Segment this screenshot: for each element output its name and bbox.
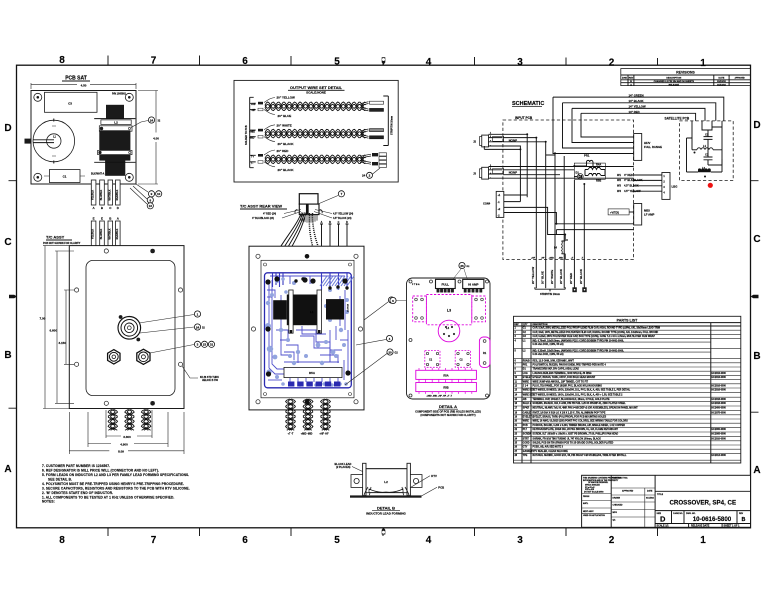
svg-text:R5A: R5A xyxy=(443,374,448,378)
svg-text:SCREWS, #6x32x5, 316, 8 JAW, P: SCREWS, #6x32x5, 316, 8 JAW, P/N PB PHIL… xyxy=(533,402,627,405)
twisted pair HF wires xyxy=(265,102,366,108)
svg-text:20: 20 xyxy=(388,350,392,354)
right terminals pair1 xyxy=(361,102,369,111)
svg-text:NATURAL SHRINK, GOOD ETA, 58,: NATURAL SHRINK, GOOD ETA, 58, P/N 40HC/7… xyxy=(533,454,627,457)
svg-text:CTY: CTY xyxy=(523,447,528,449)
svg-text:A: A xyxy=(4,464,11,475)
svg-text:10-0616: 10-0616 xyxy=(348,303,350,312)
resistor R5A xyxy=(284,367,342,377)
svg-text:CONTRACT NO.: CONTRACT NO. xyxy=(613,477,629,480)
svg-text:POLYSWITCH, RUE250, P/N RAYCHE: POLYSWITCH, RUE250, P/N RAYCHEM, PRE-TRI… xyxy=(533,364,607,367)
inductor L3 rear xyxy=(326,299,344,319)
svg-text:SHEET 1 OF 1: SHEET 1 OF 1 xyxy=(724,525,741,528)
svg-text:13: 13 xyxy=(149,204,153,208)
svg-text:CAP, 10uF, 100V, METALLIZED PO: CAP, 10uF, 100V, METALLIZED POLYESTER FI… xyxy=(533,331,659,334)
capacitor C1 sat xyxy=(704,150,723,165)
wire 14 BLACK xyxy=(563,103,716,148)
right straight wires xyxy=(320,224,349,273)
corner screw holes xyxy=(34,93,134,181)
bottom solder terminals xyxy=(288,382,340,387)
svg-text:STRIP/TIN 10mm: STRIP/TIN 10mm xyxy=(391,116,394,135)
svg-text:W3: W3 xyxy=(617,184,621,188)
inductor L1 sat xyxy=(692,149,697,151)
svg-text:4: 4 xyxy=(426,57,432,68)
svg-text:RES, 12.5 OHM, 10W, CERAMIC, W: RES, 12.5 OHM, 10W, CERAMIC, WWT xyxy=(533,359,575,362)
svg-text:4: 4 xyxy=(426,535,432,546)
svg-text:4.00: 4.00 xyxy=(153,137,159,141)
svg-text:P/N 1005801: P/N 1005801 xyxy=(112,93,127,96)
svg-text:HC2075-0000: HC2075-0000 xyxy=(712,412,727,414)
svg-text:HC2016-0000: HC2016-0000 xyxy=(712,373,727,375)
svg-text:CON4: CON4 xyxy=(483,202,491,206)
header wires xyxy=(504,207,634,234)
inductor L1 (toroid) xyxy=(33,120,75,162)
svg-text:DRAWN: DRAWN xyxy=(613,497,621,500)
left dimensions xyxy=(43,246,74,409)
braids placeholder xyxy=(265,102,366,164)
svg-text:PCBX, AB, A/P, SEE NOTE 3: PCBX, AB, A/P, SEE NOTE 3 xyxy=(533,446,564,449)
svg-text:01/15/02: 01/15/02 xyxy=(717,81,726,83)
red marker xyxy=(708,183,713,188)
svg-text:T/C ASSY: T/C ASSY xyxy=(46,235,65,240)
svg-text:PR1: PR1 xyxy=(523,365,528,367)
svg-text:C1: C1 xyxy=(705,153,709,157)
svg-text:F T B A: F T B A xyxy=(412,283,420,286)
hex nuts xyxy=(108,349,150,364)
svg-text:31: 31 xyxy=(210,343,214,347)
svg-text:GASKET: GASKET xyxy=(523,450,533,453)
svg-text:W2: W2 xyxy=(617,178,621,182)
hatched copper area xyxy=(320,276,354,286)
svg-text:SCALE:NONE: SCALE:NONE xyxy=(306,91,326,95)
svg-text:0.40 ohm DCR, ±10%, 55 uH): 0.40 ohm DCR, ±10%, 55 uH) xyxy=(533,343,564,346)
bobbin flanges xyxy=(363,463,366,495)
svg-text:SHLD 2: SHLD 2 xyxy=(523,403,532,405)
svg-text:CAGE NO.: CAGE NO. xyxy=(673,512,683,515)
svg-text:WHT/BLK: WHT/BLK xyxy=(108,228,111,239)
mounting holes xyxy=(409,280,489,397)
svg-text:W1: W1 xyxy=(617,173,621,177)
balloons 26 R2 xyxy=(446,269,470,288)
pin wires group 2 xyxy=(93,217,120,221)
svg-text:CORD: CORD xyxy=(523,443,530,445)
zone ticks sides xyxy=(9,181,759,413)
svg-text:3: 3 xyxy=(517,535,523,546)
svg-text:5: 5 xyxy=(334,57,340,68)
svg-text:LUG: LUG xyxy=(523,373,528,375)
svg-text:PCB: PCB xyxy=(438,485,444,489)
svg-text:R5A/B: R5A/B xyxy=(523,359,530,362)
wire conn1 loop xyxy=(503,134,527,201)
diode D1 xyxy=(577,174,583,180)
svg-text:D: D xyxy=(660,515,666,524)
svg-text:+MID -MID +HF -HF +T -T: +MID -MID +HF -HF +T -T xyxy=(426,396,452,398)
mounting tabs xyxy=(351,475,363,488)
right connector pair3 xyxy=(360,154,371,164)
svg-text:SET WIRES, BONDED, 16GA, 220x3: SET WIRES, BONDED, 16GA, 220x300, 1UL, P… xyxy=(533,389,631,392)
svg-text:FULL RANGE: FULL RANGE xyxy=(644,145,662,149)
svg-text:J 1-4: J 1-4 xyxy=(523,385,529,388)
svg-text:L2: L2 xyxy=(114,121,118,125)
svg-text:EYELET: EYELET xyxy=(523,377,533,379)
blue PCB xyxy=(265,273,355,388)
rear twisted wire pair MID xyxy=(303,399,311,430)
svg-text:FINISH: FINISH xyxy=(583,496,590,498)
svg-text:PLT: PLT xyxy=(523,429,528,431)
svg-text:C3: C3 xyxy=(705,132,709,136)
svg-text:REVISIONS: REVISIONS xyxy=(676,71,695,75)
solder pads xyxy=(265,277,349,387)
svg-text:HC2400-0000: HC2400-0000 xyxy=(712,407,727,410)
svg-text:C: C xyxy=(338,221,340,224)
svg-text:SPKR: SPKR xyxy=(523,408,530,410)
svg-text:20" WHITE: 20" WHITE xyxy=(277,123,292,127)
svg-text:R5B: R5B xyxy=(443,386,448,390)
svg-text:+MID: +MID xyxy=(549,257,555,259)
svg-text:PCB NOT SHOWN FOR CLARITY: PCB NOT SHOWN FOR CLARITY xyxy=(43,242,81,245)
svg-text:PCB: PCB xyxy=(523,425,528,427)
svg-text:YEL/BLK: YEL/BLK xyxy=(92,190,95,201)
svg-text:4.5" YELLOW (24): 4.5" YELLOW (24) xyxy=(333,213,353,216)
wire pins below PCB SAT xyxy=(91,180,161,246)
front panel twisted wire T xyxy=(108,410,115,431)
svg-text:(2 PLACES): (2 PLACES) xyxy=(336,465,351,469)
svg-text:PARTS LIST: PARTS LIST xyxy=(617,319,639,323)
svg-text:C: C xyxy=(4,237,11,248)
board outline xyxy=(31,91,136,185)
svg-text:PR1: PR1 xyxy=(584,154,590,158)
svg-text:SEE DETAIL B.: SEE DETAIL B. xyxy=(48,478,72,482)
svg-text:LF AMP: LF AMP xyxy=(644,213,654,217)
svg-text:TPE: TPE xyxy=(523,455,528,457)
svg-text:HC2010-0000: HC2010-0000 xyxy=(712,438,727,440)
svg-text:4" BLU/BLACK (24): 4" BLU/BLACK (24) xyxy=(252,217,274,220)
svg-text:WHT/BLK: WHT/BLK xyxy=(108,189,111,200)
svg-text:-MID: -MID xyxy=(249,137,255,140)
svg-text:INPUT PCB: INPUT PCB xyxy=(515,116,533,120)
svg-text:T/C ASSY REAR VIEW: T/C ASSY REAR VIEW xyxy=(240,204,282,209)
svg-text:T+: T+ xyxy=(251,156,255,159)
svg-text:C1: C1 xyxy=(63,175,67,179)
svg-text:14" BLACK: 14" BLACK xyxy=(629,99,644,103)
svg-text:HC2014-0000: HC2014-0000 xyxy=(712,454,727,457)
rear twisted wire pair T xyxy=(286,399,294,430)
svg-text:REV: REV xyxy=(739,513,744,515)
junction dots xyxy=(519,133,585,235)
wire W2 xyxy=(634,179,662,181)
svg-text:+HF: +HF xyxy=(251,103,256,106)
svg-text:7. CUSTOMER PART NUMBER IS 12: 7. CUSTOMER PART NUMBER IS 1234567. xyxy=(42,464,110,468)
satellite wires xyxy=(692,121,722,138)
svg-text:B: B xyxy=(753,351,760,362)
svg-text:7.00: 7.00 xyxy=(40,317,46,321)
resistor R4A xyxy=(588,168,601,170)
svg-text:20" YELLOW: 20" YELLOW xyxy=(277,96,296,100)
svg-text:APPROVED: APPROVED xyxy=(622,489,634,492)
svg-text:C3: C3 xyxy=(68,102,72,106)
svg-text:RELEASE: RELEASE xyxy=(669,83,680,86)
svg-text:5. FORM LEADS ON INDUCTOR L2: 5. FORM LEADS ON INDUCTOR L2 AND L3 PER … xyxy=(42,473,189,477)
svg-text:ZONE: ZONE xyxy=(622,77,628,79)
svg-text:1. ALL COMPONENTS TO BE TESTE: 1. ALL COMPONENTS TO BE TESTED AT 1 KHz … xyxy=(42,495,174,499)
capacitor C1 xyxy=(49,170,80,183)
wire 14 GREEN xyxy=(553,97,724,153)
pcb hatched xyxy=(350,495,422,497)
wire W3 xyxy=(634,185,662,187)
connector HI AMP xyxy=(463,279,484,288)
mounting holes xyxy=(75,249,183,406)
svg-text:HC2016-0000: HC2016-0000 xyxy=(712,377,727,379)
note 8X holes xyxy=(182,366,198,378)
svg-text:+MID: +MID xyxy=(249,130,255,133)
svg-text:8.09: 8.09 xyxy=(118,450,124,454)
speakon connector xyxy=(118,317,141,340)
dimension 4.00 xyxy=(138,91,158,185)
inductor L2 sat xyxy=(697,171,698,173)
leader balloons right xyxy=(139,315,194,354)
svg-text:HC2016-0000: HC2016-0000 xyxy=(712,390,727,392)
svg-text:B: B xyxy=(329,221,331,224)
svg-text:WIRE, 16 AWG, UL/1015 (105) PO: WIRE, 16 AWG, UL/1015 (105) POINT PVC CO… xyxy=(533,420,629,423)
general notes xyxy=(42,464,190,504)
centre marks xyxy=(9,295,17,299)
left bracket xyxy=(250,97,256,167)
svg-text:4. POLYSWITCH MUST BE PRE-TRI: 4. POLYSWITCH MUST BE PRE-TRIPPED USING … xyxy=(42,482,184,486)
svg-text:4.50: 4.50 xyxy=(81,84,87,88)
svg-text:D1: D1 xyxy=(576,171,580,175)
svg-text:PLUG, 7/16 PANEL, FOR 18/16P,: PLUG, 7/16 PANEL, FOR 18/16P, PVC, BLACK… xyxy=(533,385,603,388)
block MID LF AMP xyxy=(634,204,642,226)
bottom twisted wires xyxy=(108,410,151,431)
svg-text:4.5" YELLOW: 4.5" YELLOW xyxy=(624,189,641,193)
wire W4 xyxy=(634,190,662,192)
svg-text:R4A: R4A xyxy=(596,163,601,167)
svg-text:4.5" BLACK (24): 4.5" BLACK (24) xyxy=(333,217,352,220)
svg-text:NEXT ASSY: NEXT ASSY xyxy=(583,510,594,513)
svg-text:TERMINAL CUP, 184x217, BLACK/G: TERMINAL CUP, 184x217, BLACK/GOLD, 28mm,… xyxy=(533,398,611,401)
parts list table xyxy=(514,316,741,463)
title block xyxy=(582,475,751,527)
dimension 4.50 xyxy=(31,83,136,89)
svg-text:DWG. NO.: DWG. NO. xyxy=(686,513,696,515)
svg-text:3: 3 xyxy=(517,57,523,68)
svg-text:HC2018-0000: HC2018-0000 xyxy=(712,399,727,401)
svg-text:10-0616-5800: 10-0616-5800 xyxy=(693,516,732,523)
capacitor C3 xyxy=(45,92,98,112)
svg-text:DATE: DATE xyxy=(719,76,725,79)
bottom braids xyxy=(286,399,331,430)
svg-text:2: 2 xyxy=(609,535,615,546)
connector J3 xyxy=(482,167,489,179)
svg-text:14" GREEN: 14" GREEN xyxy=(629,93,644,97)
front panel twisted wire MID xyxy=(125,410,132,431)
svg-text:4" RED (24): 4" RED (24) xyxy=(263,213,276,216)
svg-text:24: 24 xyxy=(362,174,366,178)
svg-text:T-: T- xyxy=(251,162,253,165)
svg-text:CAP, 0.22uF, 250V POLYESTER FI: CAP, 0.22uF, 250V POLYESTER FILM CAP, BO… xyxy=(533,335,656,338)
inductor L4 (toroid) xyxy=(438,320,460,342)
svg-text:20" WHITE: 20" WHITE xyxy=(550,270,554,284)
wire W1 xyxy=(634,174,662,176)
terminal block J4 xyxy=(662,173,670,200)
balloon 24 (L2 bar) xyxy=(131,121,148,128)
svg-text:L3: L3 xyxy=(447,309,451,313)
svg-text:SCREW, SLT .093x50 x .09x50 x: SCREW, SLT .093x50 x .09x50 x .62ST PB B… xyxy=(533,433,619,436)
svg-text:A: A xyxy=(321,221,323,224)
svg-text:20" RED: 20" RED xyxy=(569,273,573,284)
svg-text:STRT: STRT xyxy=(523,438,530,440)
svg-text:RED/BLK: RED/BLK xyxy=(116,189,119,200)
svg-text:KEYBOARD/PLATE, 184x8 DIA, 28: KEYBOARD/PLATE, 184x8 DIA, 28 PKG BROWN,… xyxy=(533,428,619,431)
svg-text:C: C xyxy=(753,234,760,245)
strip/tin bracket xyxy=(535,287,565,291)
svg-text:E: E xyxy=(101,217,103,221)
svg-text:D: D xyxy=(4,123,11,134)
right bracket xyxy=(383,96,388,146)
svg-text:OF MACKIE DESIGNS.: OF MACKIE DESIGNS. xyxy=(588,481,609,484)
balloon 6 xyxy=(396,300,407,302)
svg-text:6. REF DESIGNATOR IS MILL PRI: 6. REF DESIGNATOR IS MILL PRICE WILL (CO… xyxy=(42,469,159,473)
svg-text:R5B: R5B xyxy=(596,179,601,183)
pcb screws xyxy=(265,276,350,376)
zone ticks top xyxy=(108,56,658,66)
svg-text:RIVET, 1/8 DIA X 5/16 LG X 1/8: RIVET, 1/8 DIA X 5/16 LG X 1/8 X 1.25 X … xyxy=(533,411,606,414)
svg-text:LBG: LBG xyxy=(672,185,678,189)
svg-text:24: 24 xyxy=(150,118,154,122)
svg-text:8: 8 xyxy=(59,55,65,66)
svg-text:LUG/SOLDERLESS TERMINAL, NON S: LUG/SOLDERLESS TERMINAL, NON SPLICE, #6 … xyxy=(533,372,592,375)
svg-text:2: 2 xyxy=(609,58,615,69)
svg-text:POROUS, BOARD, 0.200 x 0.200,: POROUS, BOARD, 0.200 x 0.200, TINNED BRA… xyxy=(533,424,626,427)
svg-text:R5A: R5A xyxy=(309,371,316,375)
svg-text:CROSSOVER, SP4, CE: CROSSOVER, SP4, CE xyxy=(669,500,736,507)
svg-text:MFG: MFG xyxy=(613,512,618,514)
revisions table xyxy=(621,69,751,86)
svg-text:01/15/02: 01/15/02 xyxy=(646,498,655,500)
svg-text:3.150: 3.150 xyxy=(59,341,67,345)
connector block top xyxy=(299,194,318,204)
svg-text:RELEASE DATE: RELEASE DATE xyxy=(691,525,710,528)
svg-text:INDUCTOR LEAD FORMING: INDUCTOR LEAD FORMING xyxy=(366,512,406,516)
svg-text:APPROVED: APPROVED xyxy=(735,76,746,79)
svg-text:3. SECURE CAPACITORS, RESISTO: 3. SECURE CAPACITORS, RESISTORS AND RESI… xyxy=(42,486,190,490)
svg-text:SOLDER TO PCB: SOLDER TO PCB xyxy=(245,125,248,145)
svg-text:7: 7 xyxy=(151,535,157,546)
svg-text:A: A xyxy=(753,465,760,476)
rear panel xyxy=(249,246,364,410)
svg-text:RTV: RTV xyxy=(431,474,437,478)
formed leads xyxy=(364,487,409,495)
svg-text:7: 7 xyxy=(151,56,157,67)
svg-text:REV: REV xyxy=(629,77,634,79)
svg-text:20" BLACK: 20" BLACK xyxy=(278,168,295,172)
svg-text:+V/T(X): +V/T(X) xyxy=(610,210,619,214)
svg-text:STRIP/TIN 10mm: STRIP/TIN 10mm xyxy=(540,293,561,296)
svg-text:D: D xyxy=(753,120,760,131)
right terminals pair2 xyxy=(361,129,369,138)
resistor R5A outline xyxy=(416,370,477,391)
svg-text:23: 23 xyxy=(203,343,207,347)
svg-text:SHRINK, FR-3/16 TINS TUBING UL: SHRINK, FR-3/16 TINS TUBING UL 747 NYLON… xyxy=(533,437,602,440)
svg-text:2. 'M' DENOTES START END OF I: 2. 'M' DENOTES START END OF INDUCTOR. xyxy=(42,491,113,495)
svg-text:WIRE JUMP #18 AWG/UL, 18P TINN: WIRE JUMP #18 AWG/UL, 18P TINNED, CUT TO… xyxy=(533,380,589,383)
svg-text:RTV SEALER, CLEAR SILICONE: RTV SEALER, CLEAR SILICONE xyxy=(533,450,569,453)
svg-text:B: B xyxy=(742,517,746,523)
svg-text:HC2060-0000: HC2060-0000 xyxy=(712,429,727,431)
svg-text:R1: R1 xyxy=(483,351,487,355)
svg-text:TRANSZORB 5KP, 30V CAPS, AXIAL: TRANSZORB 5KP, 30V CAPS, AXIAL LEAD xyxy=(533,368,580,371)
svg-text:DESCRIPTION: DESCRIPTION xyxy=(666,77,681,79)
svg-text:20" BLACK: 20" BLACK xyxy=(278,142,295,146)
svg-text:L2: L2 xyxy=(384,480,388,484)
balloons right xyxy=(345,302,388,385)
svg-text:FULL: FULL xyxy=(441,283,449,287)
svg-text:YEL/BLK: YEL/BLK xyxy=(92,229,95,240)
resistor R5B xyxy=(588,174,601,176)
front panel twisted wire HF xyxy=(141,410,148,431)
svg-text:WIRE: WIRE xyxy=(523,381,529,383)
bobbin flange bars xyxy=(289,290,322,333)
svg-text:DETAIL A: DETAIL A xyxy=(439,404,457,409)
svg-text:RED/BLK: RED/BLK xyxy=(116,228,119,239)
svg-text:DESCRIPTION: DESCRIPTION xyxy=(533,324,548,326)
wire-to-pad traces xyxy=(273,273,348,290)
svg-text:SCALE 1/1: SCALE 1/1 xyxy=(657,525,670,528)
svg-text:HC2085-0000: HC2085-0000 xyxy=(712,434,727,436)
bus verticals xyxy=(503,138,536,260)
panel outline xyxy=(69,246,184,409)
left wire bundle curving down xyxy=(269,213,307,274)
svg-text:QTY: QTY xyxy=(523,324,528,326)
wire 14 YELLOW xyxy=(572,108,705,142)
svg-text:EYELET, BRASS, THRU, #4737, FO: EYELET, BRASS, THRU, #4737, FOR BULK HEA… xyxy=(533,376,596,379)
svg-text:DO NOT SCALE DWG: DO NOT SCALE DWG xyxy=(584,491,604,494)
svg-text:OUTPUT WIRE SET DETAIL: OUTPUT WIRE SET DETAIL xyxy=(290,85,343,90)
svg-text:SET WIRES, BONDED, 16GA, 220x3: SET WIRES, BONDED, 16GA, 220x300, 1UL, P… xyxy=(533,393,624,396)
svg-text:SHLDS, PCB SN 750 (FINISH PCB: SHLDS, PCB SN 750 (FINISH PCB TO 25 GRAD… xyxy=(533,442,614,445)
svg-text:+HF -HF: +HF -HF xyxy=(319,433,329,436)
detail A pcb outline xyxy=(407,278,491,399)
wire 14 RED xyxy=(581,113,696,137)
svg-text:SATELLITE PCB: SATELLITE PCB xyxy=(665,117,690,121)
output wires bottom xyxy=(535,260,537,289)
connector J2 xyxy=(482,135,489,147)
svg-text:01/10/02: 01/10/02 xyxy=(717,84,726,86)
svg-text:NOTES:: NOTES: xyxy=(42,500,55,504)
inductor L2 assembly (iron core) xyxy=(106,105,124,119)
rear twisted wire pair HF xyxy=(321,399,329,430)
wire conn2 runs xyxy=(503,167,634,179)
svg-text:20" BLACK: 20" BLACK xyxy=(579,269,583,284)
svg-text:20" BLUE: 20" BLUE xyxy=(278,114,292,118)
svg-text:20" BLUE: 20" BLUE xyxy=(541,271,545,284)
inductor L2 rear xyxy=(273,300,287,319)
svg-text:20" RED: 20" RED xyxy=(277,149,290,153)
pcb traces xyxy=(267,276,348,382)
svg-text:4" RED: 4" RED xyxy=(624,173,633,177)
connector pins xyxy=(437,289,482,292)
svg-text:6.600: 6.600 xyxy=(50,329,58,333)
svg-text:CHECKED: CHECKED xyxy=(613,505,623,507)
svg-text:BLU/BLK: BLU/BLK xyxy=(100,189,103,200)
svg-text:CAP, 3.3uF, 250V, METALLIZED P: CAP, 3.3uF, 250V, METALLIZED POLYPROPYLE… xyxy=(533,327,661,330)
balloons 9 10 8 13 xyxy=(130,184,148,204)
inductor L1 rear xyxy=(287,295,318,326)
svg-text:SCREW: SCREW xyxy=(523,434,532,436)
svg-text:4" BLK/BLACK: 4" BLK/BLACK xyxy=(624,178,643,182)
inductor L4 xyxy=(561,241,564,254)
svg-text:D: D xyxy=(346,221,348,224)
